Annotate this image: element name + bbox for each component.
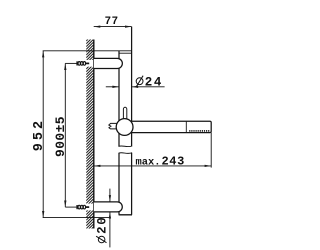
rail left edge upper [118,51,120,147]
hatch gap bottom screw [86,204,94,211]
dimension 900±5 line [64,63,66,207]
dimension ⌀24 right arrow with underline [132,86,165,88]
rail right edge lower [131,153,133,215]
wall line [93,40,95,229]
svg-text:20: 20 [96,216,110,234]
svg-text:900±5: 900±5 [53,116,68,157]
dimension max.243 line [94,165,211,167]
label 952 [32,118,47,151]
top bracket arm [94,58,123,68]
rail top cap seam [119,52,132,54]
svg-text:24: 24 [145,75,163,89]
dimension 952 arrow up [42,51,44,58]
handle separator [185,121,187,132]
dimension max.243 arrow left [94,165,101,167]
dimension 952 extension top (also rail top line) [43,50,132,52]
dimension 77 line [94,26,132,28]
dimension 952 extension bottom [43,217,110,219]
slider lock lever [123,107,126,120]
dimension 952 arrow down [42,211,44,218]
dimension 900±5 arrow up [64,63,66,70]
rail right edge upper (incl. 77 extension) [131,27,133,147]
top screw [77,61,89,65]
svg-text:max.: max. [136,156,161,168]
dimension max.243 extension [210,133,212,168]
svg-text:77: 77 [105,16,119,28]
hand shower handle [126,121,211,132]
label ⌀24 [136,75,163,89]
wall hatching [86,34,93,235]
svg-text:243: 243 [162,154,185,168]
label 900±5 [53,116,68,157]
dimension ⌀20 lower arrow/leader [109,212,111,248]
dimension 952 line [42,51,44,218]
dimension 900±5 extension top [65,62,77,64]
dimension 900±5 extension bottom [65,206,77,208]
hatch gap top screw [86,60,94,67]
dimension ⌀20 upper arrow [109,189,111,202]
dimension ⌀24 left arrow [106,86,119,88]
bottom bracket arm [94,202,123,212]
rail left edge lower [118,153,120,215]
spray face dots [189,130,209,132]
dimension 77 arrow left [94,25,101,27]
dimension max.243 arrow right [205,165,212,167]
svg-text:952: 952 [32,118,47,151]
dimension 900±5 arrow down [64,201,66,208]
bottom screw [77,205,89,209]
hose stub with break [109,123,117,128]
dimension 77 arrow right [125,25,132,27]
rail break wavy lines [119,145,133,148]
rail bottom cap [119,214,132,216]
label ⌀20 [96,216,110,243]
slider pivot circle [116,119,133,136]
